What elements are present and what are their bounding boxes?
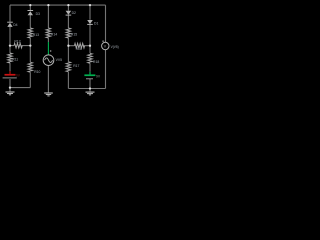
ground (ac) bbox=[44, 93, 53, 96]
wire branch3 vertical bbox=[47, 5, 49, 93]
svg-text:V(V5): V(V5) bbox=[111, 45, 119, 49]
node mid-b2 bbox=[29, 44, 31, 46]
wire branch1 vertical bbox=[9, 5, 11, 92]
resistor R15 bbox=[66, 28, 70, 38]
svg-text:D1: D1 bbox=[94, 21, 98, 25]
ground (right) bbox=[86, 92, 95, 95]
svg-text:R18: R18 bbox=[93, 60, 99, 64]
resistor R10 bbox=[28, 62, 32, 72]
svg-text:D2: D2 bbox=[72, 11, 76, 15]
wire branch6 vertical bbox=[105, 5, 107, 88]
ac source VV5 bbox=[43, 42, 62, 66]
svg-text:VV5: VV5 bbox=[56, 58, 63, 62]
node mid-b1 bbox=[9, 44, 11, 46]
svg-text:R16: R16 bbox=[76, 47, 82, 51]
node dots bbox=[9, 4, 91, 90]
svg-text:R10: R10 bbox=[34, 70, 40, 74]
node mid-b5 bbox=[89, 45, 91, 47]
wire branch4 vertical bbox=[67, 5, 69, 88]
wire mid left (R12 run) bbox=[10, 45, 30, 47]
resistor R18 bbox=[88, 53, 92, 63]
diode D2 bbox=[66, 11, 76, 15]
wire top bus bbox=[10, 4, 106, 6]
resistor R16 (horizontal) bbox=[74, 43, 84, 48]
ground (left) bbox=[6, 92, 15, 95]
svg-text:R12: R12 bbox=[14, 40, 20, 44]
svg-text:R17: R17 bbox=[73, 64, 79, 68]
node top-b2 bbox=[29, 4, 31, 6]
diode D1 bbox=[87, 20, 98, 25]
svg-text:R11: R11 bbox=[12, 57, 18, 61]
battery V2 (green) bbox=[84, 72, 100, 79]
node bot-b5 bbox=[89, 87, 91, 89]
wire mid right (R16 run) bbox=[68, 45, 90, 47]
svg-text:R13: R13 bbox=[33, 33, 39, 37]
svg-text:R15: R15 bbox=[71, 32, 77, 36]
node mid-b4 bbox=[67, 45, 69, 47]
node top-b5 bbox=[89, 4, 91, 6]
diode D4 bbox=[7, 22, 17, 27]
resistor R11 bbox=[8, 53, 12, 63]
wire bottom left bbox=[10, 87, 30, 89]
svg-text:D4: D4 bbox=[13, 23, 17, 27]
diode D3 bbox=[28, 11, 41, 17]
resistor R14 bbox=[46, 28, 50, 38]
resistor R12 (horizontal) bbox=[14, 43, 22, 48]
svg-text:R14: R14 bbox=[51, 32, 57, 36]
node bot-b1 bbox=[9, 86, 11, 88]
node top-b3 bbox=[47, 4, 49, 6]
svg-text:D3: D3 bbox=[36, 12, 40, 16]
battery V1 (red) bbox=[3, 71, 21, 78]
voltmeter V(V5) bbox=[102, 40, 119, 49]
node top-b4 bbox=[67, 4, 69, 6]
wire bottom right bbox=[68, 88, 105, 90]
resistor R13 bbox=[28, 28, 32, 38]
wire branch5 vertical bbox=[89, 5, 91, 92]
resistor R17 bbox=[66, 62, 70, 72]
wire branch2 vertical bbox=[29, 5, 31, 88]
